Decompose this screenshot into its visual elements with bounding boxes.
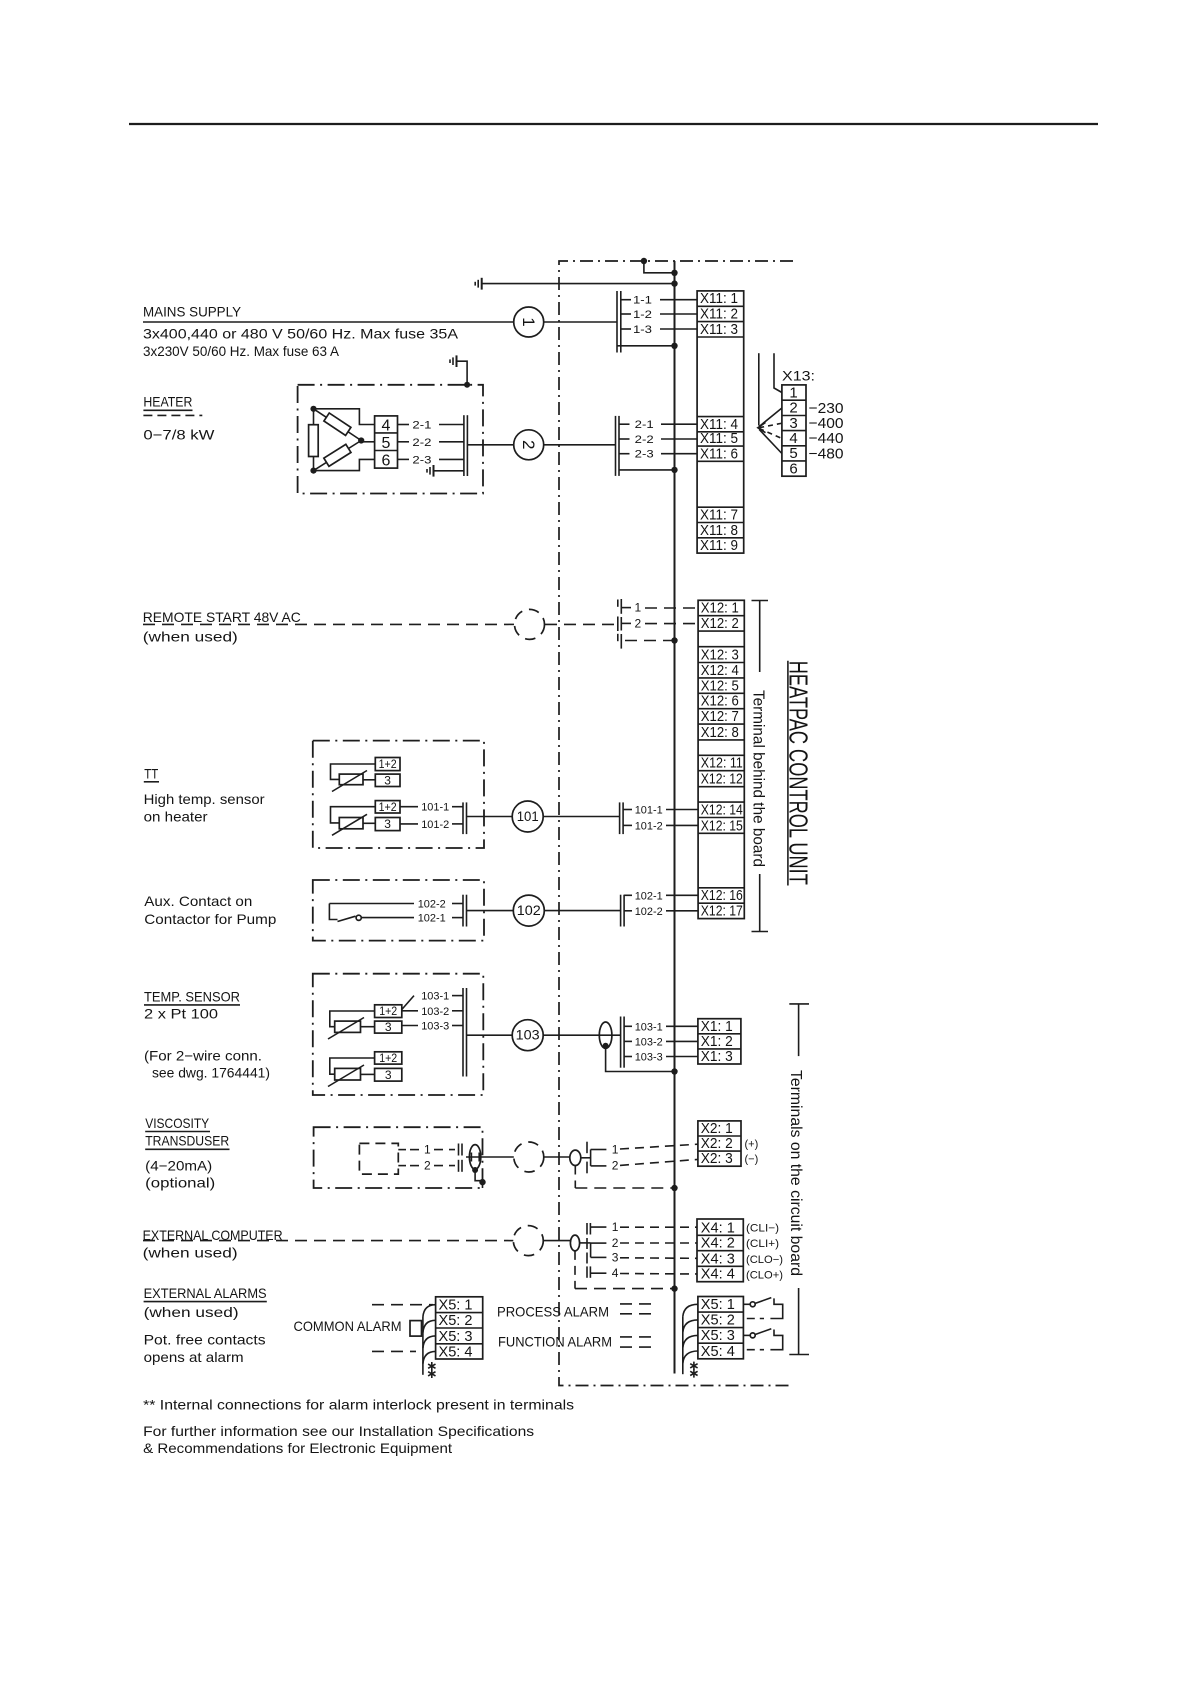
dashed lead to X5:4 (left block)	[372, 1350, 416, 1352]
TT sensor enclosure (dash-dot box)	[313, 741, 484, 848]
HEATER label	[143, 394, 215, 443]
svg-text:For further information see ou: For further information see our Installa…	[143, 1423, 534, 1439]
cable shield (ext computer)	[570, 1235, 590, 1251]
svg-text:X12: 14: X12: 14	[701, 802, 743, 819]
remote pin 1	[618, 599, 698, 615]
wire 101-2 (right) to X12:15	[623, 820, 698, 832]
wire CN102a to circle 102	[467, 910, 514, 912]
svg-text:(CLI−): (CLI−)	[746, 1223, 779, 1235]
measuring circle 2	[514, 430, 544, 460]
svg-text:−480: −480	[809, 445, 844, 462]
svg-text:X13:: X13:	[782, 367, 815, 383]
shield drain to enclosure	[475, 1170, 486, 1188]
Pt100 sensor B terminal 3	[375, 1068, 402, 1082]
measuring circle viscosity (dashed)	[514, 1142, 544, 1172]
MAINS SUPPLY label	[143, 304, 459, 360]
wire 102-2 (right) to X12:17	[624, 906, 698, 918]
wire 2-3 (left)	[398, 454, 464, 466]
svg-text:see dwg. 1764441): see dwg. 1764441)	[152, 1065, 270, 1081]
wire G2 to heater enclosure	[457, 361, 471, 388]
svg-text:(optional): (optional)	[145, 1175, 215, 1191]
EXTERNAL COMPUTER label	[143, 1227, 283, 1261]
TT label	[144, 765, 265, 824]
svg-text:101-1: 101-1	[635, 805, 663, 817]
wire circle 101 to CN101b	[543, 816, 619, 818]
measuring circle 1	[514, 307, 544, 337]
svg-text:High temp. sensor: High temp. sensor	[144, 791, 265, 807]
heater terminal block 4 5 6	[375, 416, 398, 470]
svg-text:(4−20mA): (4−20mA)	[145, 1158, 212, 1174]
svg-text:2: 2	[635, 616, 642, 630]
svg-text:X4: 2: X4: 2	[701, 1235, 735, 1252]
svg-text:1: 1	[612, 1142, 619, 1156]
svg-text:X11: 3: X11: 3	[700, 321, 738, 338]
heater element R2 (upper diagonal)	[324, 413, 351, 435]
svg-text:1: 1	[424, 1143, 431, 1157]
svg-text:FUNCTION ALARM: FUNCTION ALARM	[498, 1334, 612, 1350]
wire ground G1 to bus	[482, 280, 678, 286]
Pt100 sensor A thermistor	[328, 1011, 375, 1039]
svg-text:VISCOSITY: VISCOSITY	[145, 1115, 210, 1131]
svg-text:1-3: 1-3	[633, 324, 652, 336]
svg-text:102-2: 102-2	[635, 906, 663, 918]
svg-text:X5: 2: X5: 2	[701, 1312, 735, 1329]
svg-text:opens at alarm: opens at alarm	[144, 1349, 244, 1365]
wire 103-1	[402, 991, 463, 1010]
svg-text:X12: 12: X12: 12	[701, 771, 743, 788]
Aux contact label	[144, 893, 276, 927]
pin 2 (viscosity right)	[587, 1159, 698, 1174]
svg-text:4: 4	[612, 1266, 619, 1280]
wire bonding enclosure to bus	[641, 258, 678, 276]
wire 103-3 (right) to X1:3	[624, 1052, 698, 1064]
svg-text:TEMP. SENSOR: TEMP. SENSOR	[144, 988, 240, 1004]
FUNCTION ALARM label	[498, 1334, 612, 1350]
TT spare sensor thermistor	[331, 764, 376, 792]
svg-text:X2: 3: X2: 3	[701, 1150, 733, 1167]
measuring circle remote start (dashed)	[515, 609, 545, 639]
wire pin 1 (left, dashed)	[398, 1143, 462, 1157]
terminal block X5 (right)	[698, 1296, 744, 1360]
wire pin 2 (left, dashed)	[398, 1159, 462, 1173]
remote pin shield to bus	[618, 634, 678, 649]
wire circle 2 to CN2b	[544, 444, 616, 446]
svg-text:2: 2	[424, 1159, 431, 1173]
wire 102-2 (left)	[329, 899, 463, 911]
svg-text:102-2: 102-2	[418, 899, 446, 911]
measuring circle ext computer (dashed)	[513, 1226, 543, 1256]
svg-text:X5: 4: X5: 4	[701, 1343, 735, 1360]
svg-text:3: 3	[384, 773, 391, 787]
bracket: terminals on the circuit board	[787, 1004, 809, 1355]
connector CN101a	[463, 802, 467, 834]
svg-text:PROCESS ALARM: PROCESS ALARM	[497, 1303, 609, 1319]
VISCOSITY TRANSDUSER label	[145, 1115, 229, 1191]
X13 selector feed wire B	[774, 353, 782, 392]
TT spare sensor terminal 1+2	[375, 757, 400, 771]
wire external computer (dashed)	[143, 1240, 513, 1242]
svg-text:(CLO−): (CLO−)	[746, 1254, 783, 1266]
function alarm dashed leads	[620, 1337, 656, 1347]
measuring circle 101	[512, 801, 543, 832]
svg-text:& Recommendations for Electron: & Recommendations for Electronic Equipme…	[143, 1440, 452, 1456]
svg-text:X5: 1: X5: 1	[701, 1296, 735, 1313]
svg-text:TRANSDUSER: TRANSDUSER	[145, 1133, 229, 1149]
svg-text:Contactor for Pump: Contactor for Pump	[144, 911, 276, 927]
aux contact enclosure (dash-dot box)	[313, 880, 484, 941]
wire 101-1 (left)	[400, 802, 463, 814]
svg-text:(when used): (when used)	[144, 1304, 239, 1320]
svg-text:2 x Pt 100: 2 x Pt 100	[144, 1006, 218, 1022]
svg-text:(+): (+)	[745, 1138, 759, 1150]
svg-text:3: 3	[385, 1020, 392, 1034]
svg-text:1+2: 1+2	[379, 1051, 397, 1065]
svg-text:2-1: 2-1	[635, 419, 654, 431]
svg-text:5: 5	[382, 435, 391, 452]
process alarm contact	[743, 1298, 782, 1319]
EXTERNAL ALARMS label	[144, 1285, 267, 1365]
svg-text:REMOTE START 48V AC: REMOTE START 48V AC	[143, 609, 301, 625]
svg-text:HEATER: HEATER	[143, 394, 192, 410]
function alarm contact	[743, 1329, 782, 1350]
computer pin 3	[587, 1250, 697, 1264]
viscosity transducer body (dashed rect)	[359, 1143, 398, 1174]
wire CN2a to circle 2	[467, 444, 513, 446]
svg-text:102: 102	[517, 903, 541, 918]
cable shield symbol (103)	[599, 1022, 612, 1049]
svg-text:1: 1	[635, 601, 642, 615]
svg-text:1+2: 1+2	[379, 1004, 397, 1018]
svg-text:101-2: 101-2	[635, 820, 663, 832]
TT spare sensor terminal 3	[375, 773, 400, 787]
remote pin 2	[618, 616, 698, 631]
svg-text:101: 101	[517, 809, 539, 824]
computer pin 2	[587, 1236, 697, 1257]
svg-text:TT: TT	[144, 765, 158, 781]
svg-text:X12: 11: X12: 11	[701, 755, 743, 772]
cable shield (viscosity left, dashed oval)	[466, 1145, 486, 1173]
svg-text:103-3: 103-3	[635, 1052, 663, 1064]
svg-text:Terminal behind the board: Terminal behind the board	[750, 690, 767, 867]
footnote: further information	[143, 1423, 534, 1456]
wire 1-2	[621, 309, 697, 321]
PROCESS ALARM label	[497, 1303, 609, 1319]
svg-text:X12: 15: X12: 15	[701, 817, 743, 834]
delta node dots	[310, 406, 364, 474]
svg-text:X5: 2: X5: 2	[439, 1312, 473, 1329]
wire 103-3	[402, 1021, 463, 1033]
svg-text:2-2: 2-2	[412, 437, 431, 449]
wire 102-1 (right) to X12:16	[624, 890, 698, 902]
shield drain to bus	[606, 1046, 678, 1075]
common alarm link rectangle	[410, 1321, 422, 1337]
wire 103-1 (right) to X1:1	[624, 1021, 698, 1033]
measuring circle 102	[513, 895, 544, 926]
heater element R3 (lower diagonal)	[324, 444, 351, 466]
wire 2-1 (right)	[619, 419, 697, 431]
Pt100 sensor A terminal 1+2	[375, 1004, 402, 1018]
svg-text:Terminals on the circuit board: Terminals on the circuit board	[787, 1070, 804, 1276]
wire circle 102 to CN102b	[544, 910, 620, 912]
svg-text:102-1: 102-1	[418, 913, 446, 925]
svg-text:103-1: 103-1	[635, 1021, 663, 1033]
svg-text:2-3: 2-3	[635, 449, 654, 461]
svg-text:101-2: 101-2	[421, 819, 449, 831]
computer pin 4	[587, 1266, 697, 1280]
ground bus wire (vertical)	[674, 261, 676, 1374]
footnote: interlock	[143, 1397, 574, 1413]
REMOTE START label	[143, 609, 301, 645]
svg-text:6: 6	[789, 460, 797, 477]
wire CN103a to circle 103	[467, 1034, 513, 1036]
svg-text:102-1: 102-1	[635, 890, 663, 902]
terminal block X4	[697, 1219, 743, 1283]
svg-text:(−): (−)	[745, 1153, 759, 1165]
interlock hooks (left X5)	[423, 1305, 436, 1375]
temp sensor enclosure (dash-dot box)	[313, 974, 484, 1095]
X13 selector arrow and fan	[758, 408, 782, 454]
svg-text:X1: 3: X1: 3	[701, 1048, 733, 1065]
shield drain to bus (viscosity)	[575, 1166, 677, 1192]
wire delta bottom node to terminal 6	[314, 459, 375, 470]
X4 signal labels	[746, 1223, 783, 1282]
svg-text:(CLO+): (CLO+)	[746, 1269, 783, 1281]
svg-text:2: 2	[612, 1236, 619, 1250]
interlock note marker (right)	[690, 1362, 697, 1378]
svg-text:2: 2	[519, 440, 538, 449]
svg-text:1-1: 1-1	[633, 295, 652, 307]
terminal block X13	[782, 384, 806, 477]
terminal block X12	[698, 600, 744, 920]
terminal block X11	[697, 290, 744, 554]
interlock note marker (left)	[428, 1362, 435, 1378]
svg-text:** Internal connections for al: ** Internal connections for alarm interl…	[143, 1397, 574, 1413]
ground symbol G3	[427, 465, 464, 477]
wire delta top node to terminal 4	[314, 409, 375, 425]
wire 2-1 (left)	[398, 420, 464, 432]
TEMP SENSOR label	[144, 988, 270, 1080]
Pt100 sensor B thermistor	[328, 1058, 375, 1087]
measuring circle 103	[512, 1020, 543, 1051]
connector CN102a	[463, 895, 467, 927]
wire circle 103 to CN103b	[543, 1034, 620, 1036]
svg-text:X11: 9: X11: 9	[700, 537, 738, 554]
top border rule	[129, 123, 1098, 125]
svg-text:103-2: 103-2	[635, 1036, 663, 1048]
connector CN2a	[464, 415, 468, 476]
connector CN101b	[620, 802, 624, 834]
ground symbol G2	[450, 355, 457, 367]
wire circle to shield (ext computer)	[543, 1240, 570, 1242]
svg-text:EXTERNAL ALARMS: EXTERNAL ALARMS	[144, 1285, 267, 1301]
connector CN103a (tall)	[463, 988, 467, 1077]
svg-text:2-1: 2-1	[412, 420, 431, 432]
svg-text:1: 1	[612, 1220, 619, 1234]
svg-text:2-2: 2-2	[635, 434, 654, 446]
wire mains supply	[143, 321, 514, 323]
connector CN2b	[616, 416, 620, 476]
wire remote start (dashed)	[143, 623, 514, 625]
wire CN1 shield to bus	[617, 343, 678, 349]
svg-text:X5: 3: X5: 3	[439, 1328, 473, 1345]
aux contact switch	[329, 904, 361, 922]
svg-text:1+2: 1+2	[379, 757, 397, 771]
svg-text:Pot. free contacts: Pot. free contacts	[144, 1332, 266, 1348]
wire 2-2 (right)	[619, 434, 697, 446]
connector CN102b	[621, 895, 625, 927]
svg-text:(For 2−wire conn.: (For 2−wire conn.	[144, 1048, 262, 1064]
svg-text:6: 6	[382, 453, 391, 470]
svg-text:3: 3	[385, 1068, 392, 1082]
cable shield (viscosity right)	[570, 1150, 591, 1165]
pin 1 (viscosity right)	[587, 1142, 698, 1166]
bracket: terminal behind the board	[750, 601, 769, 932]
X13 header label	[782, 367, 815, 383]
wire 101-2 (left)	[400, 819, 463, 831]
svg-text:3x230V 50/60 Hz. Max fuse 63 A: 3x230V 50/60 Hz. Max fuse 63 A	[143, 343, 340, 359]
svg-text:X5: 4: X5: 4	[439, 1343, 473, 1360]
svg-text:4: 4	[382, 417, 391, 434]
svg-text:2: 2	[612, 1159, 619, 1173]
svg-text:X12: 17: X12: 17	[701, 903, 743, 920]
ground symbol G1	[475, 278, 482, 290]
X2 polarity labels	[745, 1138, 759, 1165]
shield drain to bus (ext computer)	[575, 1251, 678, 1292]
Pt100 sensor A terminal 3	[375, 1020, 402, 1034]
wire 102-1 (left)	[362, 913, 464, 925]
TT sensor 101 terminal 1+2	[375, 800, 400, 814]
svg-text:3x400,440 or 480 V 50/60 Hz. M: 3x400,440 or 480 V 50/60 Hz. Max fuse 35…	[143, 326, 459, 342]
svg-text:(when used): (when used)	[143, 629, 238, 645]
svg-text:103-1: 103-1	[421, 991, 449, 1003]
svg-text:X12: 2: X12: 2	[701, 615, 739, 632]
wire remote circle to pins (dashed)	[545, 623, 618, 625]
svg-text:X12: 8: X12: 8	[701, 724, 739, 741]
svg-text:101-1: 101-1	[421, 802, 449, 814]
svg-text:103-2: 103-2	[421, 1006, 449, 1018]
wire CN101a to circle 101	[467, 816, 513, 818]
process alarm dashed leads	[620, 1304, 656, 1314]
svg-text:MAINS SUPPLY: MAINS SUPPLY	[143, 304, 242, 320]
wire circle 1 to connector	[544, 321, 617, 323]
Pt100 sensor B terminal 1+2	[375, 1051, 402, 1065]
svg-text:X12: 7: X12: 7	[701, 708, 739, 725]
terminal block X1	[698, 1018, 741, 1065]
svg-text:3: 3	[612, 1250, 619, 1264]
connector CN1 (mains)	[617, 291, 621, 353]
COMMON ALARM label	[294, 1318, 402, 1334]
terminal block X5 (left)	[436, 1297, 483, 1361]
svg-text:X4: 4: X4: 4	[701, 1266, 735, 1283]
svg-text:Aux. Contact on: Aux. Contact on	[144, 893, 252, 909]
svg-text:X11: 6: X11: 6	[700, 445, 738, 462]
wire 1-3	[621, 324, 697, 336]
HEATPAC CONTROL UNIT title (rotated)	[784, 661, 814, 886]
svg-text:COMMON ALARM: COMMON ALARM	[294, 1318, 402, 1334]
wire 2-3 (right)	[619, 449, 697, 461]
svg-text:2-3: 2-3	[412, 454, 431, 466]
heater enclosure (dash-dot box)	[298, 385, 483, 494]
terminal block X2	[698, 1120, 741, 1167]
wire shield to circle (viscosity)	[486, 1156, 514, 1158]
interlock hooks (right X5)	[683, 1304, 698, 1374]
wire 103-2 (right) to X1:2	[624, 1036, 698, 1048]
dashed lead to X5:1 (left block)	[372, 1304, 433, 1306]
wire 2-2 (left)	[398, 437, 464, 449]
svg-text:X5: 3: X5: 3	[701, 1327, 735, 1344]
wire delta right node to terminal 5	[361, 441, 374, 443]
svg-text:1+2: 1+2	[379, 800, 397, 814]
svg-text:103-3: 103-3	[421, 1021, 449, 1033]
wire 101-1 (right) to X12:14	[623, 805, 698, 817]
svg-text:(CLI+): (CLI+)	[746, 1238, 779, 1250]
unit enclosure boundary (dash-dot)	[559, 261, 793, 1386]
svg-text:103: 103	[516, 1028, 540, 1043]
svg-text:(when used): (when used)	[143, 1245, 238, 1261]
wire circle to shield (viscosity right)	[544, 1156, 570, 1158]
X13 voltage tap labels	[809, 400, 844, 462]
wire 1-1	[621, 295, 697, 307]
svg-text:1-2: 1-2	[633, 309, 652, 321]
svg-text:3: 3	[384, 817, 391, 831]
heater delta winding wires	[314, 409, 362, 471]
svg-text:on heater: on heater	[144, 808, 208, 824]
heater element R1 (left)	[309, 425, 319, 457]
computer pin 1	[587, 1220, 697, 1235]
TT sensor 101 thermistor	[331, 807, 376, 836]
X13 selector feed wire A	[758, 353, 760, 425]
svg-text:1: 1	[519, 317, 538, 326]
wire 103-2	[402, 1006, 463, 1018]
TT sensor 101 terminal 3	[375, 817, 400, 831]
svg-text:0−7/8 kW: 0−7/8 kW	[143, 427, 215, 443]
connector CN103b	[621, 1017, 625, 1068]
wire CN2b shield to bus	[619, 467, 678, 473]
viscosity enclosure (dash-dot box)	[314, 1127, 483, 1188]
